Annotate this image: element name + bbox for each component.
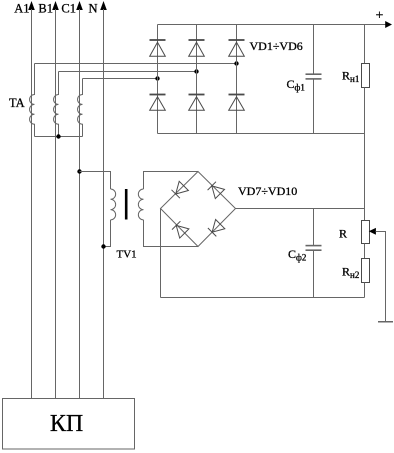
node + terminal arrow	[385, 21, 392, 28]
diode VD upper column3	[229, 40, 245, 56]
svg-text:B1: B1	[38, 2, 53, 16]
potentiometer wiper arrow	[369, 228, 376, 235]
diode VD lower column3	[229, 95, 245, 111]
svg-text:R: R	[339, 227, 347, 241]
wire right rail middle	[364, 88, 366, 221]
svg-text:Rн2: Rн2	[342, 265, 359, 281]
transformer TV1 primary winding	[111, 189, 116, 220]
block KP box	[3, 399, 135, 450]
wire bridge bottom bus	[158, 133, 365, 135]
transformer TA winding 3	[78, 79, 83, 137]
wire phase N vertical	[103, 9, 105, 399]
wire diamond right corner to rail	[236, 208, 365, 210]
wire TV1 secondary bottom to diamond	[144, 220, 199, 247]
transformer TA winding 2	[54, 72, 59, 137]
diode VD top-left	[172, 181, 189, 198]
wire right rail top	[364, 25, 366, 64]
node A1 arrow	[28, 1, 35, 10]
diode VD top-right	[208, 182, 225, 199]
node N arrow	[100, 1, 107, 10]
transformer TV1 secondary winding	[138, 189, 143, 220]
junction star point	[56, 134, 60, 138]
wire wiper to ground rail	[376, 232, 386, 322]
wire winding3 to bridge column 1	[83, 78, 158, 80]
svg-text:КП: КП	[50, 411, 83, 437]
wire R to R_n2	[364, 244, 366, 259]
wire C1 to TV1 primary	[80, 172, 111, 190]
wire TV1 primary to N	[104, 220, 111, 247]
svg-text:Cф2: Cф2	[288, 247, 306, 263]
wire winding2 to bridge column 2	[59, 71, 197, 73]
resistor R_n1	[362, 64, 370, 88]
wire TA star bus	[35, 136, 83, 138]
svg-text:Cф1: Cф1	[287, 77, 305, 93]
junction C1 tap	[77, 169, 81, 173]
svg-text:C1: C1	[61, 2, 76, 16]
wire bridge column 1	[157, 25, 159, 134]
wire TV1 secondary top to diamond	[144, 172, 199, 190]
diode VD upper column2	[189, 40, 205, 56]
svg-text:TV1: TV1	[117, 249, 137, 261]
svg-text:A1: A1	[14, 2, 29, 16]
diode VD lower column1	[150, 95, 166, 111]
wire bridge top bus	[158, 24, 388, 26]
wire phase B1 vertical	[55, 9, 57, 399]
junction column 1	[155, 76, 159, 80]
wire R_n2 to bottom bus	[364, 283, 366, 298]
diode VD bottom-left	[172, 221, 189, 238]
capacitor C_f1	[306, 25, 322, 134]
transformer TA winding 1	[30, 64, 35, 137]
ground	[378, 321, 393, 323]
wire phase A1 vertical	[31, 9, 33, 399]
svg-text:VD7÷VD10: VD7÷VD10	[238, 184, 297, 198]
wire bottom return bus	[161, 297, 365, 299]
diode VD bottom-right	[208, 220, 225, 237]
svg-text:TA: TA	[9, 96, 25, 110]
diode VD upper column1	[150, 40, 166, 56]
junction column 2	[194, 69, 198, 73]
svg-text:N: N	[88, 2, 97, 16]
resistor R potentiometer	[362, 221, 370, 244]
node C1 arrow	[76, 1, 83, 10]
diode VD lower column2	[189, 95, 205, 111]
junction N tap	[101, 244, 105, 248]
wire diamond left corner down	[160, 209, 162, 298]
svg-text:+: +	[376, 9, 384, 24]
svg-text:Rн1: Rн1	[342, 69, 359, 85]
resistor R_n2	[362, 259, 370, 283]
node B1 arrow	[52, 1, 59, 10]
capacitor C_f2	[306, 209, 322, 298]
wire bridge column 3	[236, 25, 238, 134]
junction column 3	[234, 61, 238, 65]
wire phase C1 vertical	[79, 9, 81, 399]
wire winding1 to bridge column 3	[35, 63, 237, 65]
svg-text:VD1÷VD6: VD1÷VD6	[250, 39, 303, 53]
diamond bridge edges	[161, 172, 236, 247]
wire bridge column 2	[196, 25, 198, 134]
transformer TV1 core	[125, 189, 128, 220]
